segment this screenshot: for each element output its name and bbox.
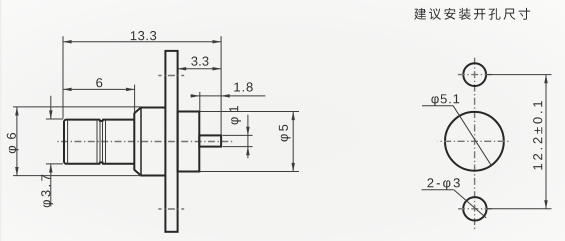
center hole horizontal centerline [438,140,511,142]
dim phi3.7 barrel diameter [46,118,63,120]
phi6 body section with chamfered face [134,108,165,176]
top mounting hole circle [463,63,486,86]
center hole circle phi5.1 [445,112,504,171]
dim phi5 sleeve diameter [200,111,299,113]
dim phi1 pin diameter [223,134,253,136]
dim phi6 body diameter [13,106,141,108]
label phi5.1 with leader [431,94,459,106]
mounting flange (side view) [165,51,177,232]
bottom hole horizontal centerline [456,208,493,210]
main horizontal centerline of connector [56,141,234,143]
phi1 center pin [199,135,221,146]
flange bottom mounting-hole centerline [158,208,184,210]
barrel chamfer ring line [67,120,69,164]
dim 13.3 overall length [62,36,64,118]
phi5 rear sleeve [178,112,200,172]
label 2-phi3 with leader [428,178,460,190]
vertical centerline through all holes [474,56,476,229]
connector body: phi3.7 barrel outline [64,120,134,164]
flange top mounting-hole centerline [158,75,184,77]
barrel snap groove wall lines [96,120,98,164]
top hole horizontal centerline [456,74,493,76]
dim 3.3 flange to pin tip [178,68,222,70]
dim 6 barrel length [134,85,136,113]
title: recommended mounting hole dimensions (CJK) [414,8,530,20]
dim 1.8 pin protrusion [199,92,201,111]
dim 12.2 +/- 0.1 hole spacing [487,74,552,76]
bottom mounting hole circle [463,197,486,220]
chamfer edge line on phi6 face [140,108,142,175]
